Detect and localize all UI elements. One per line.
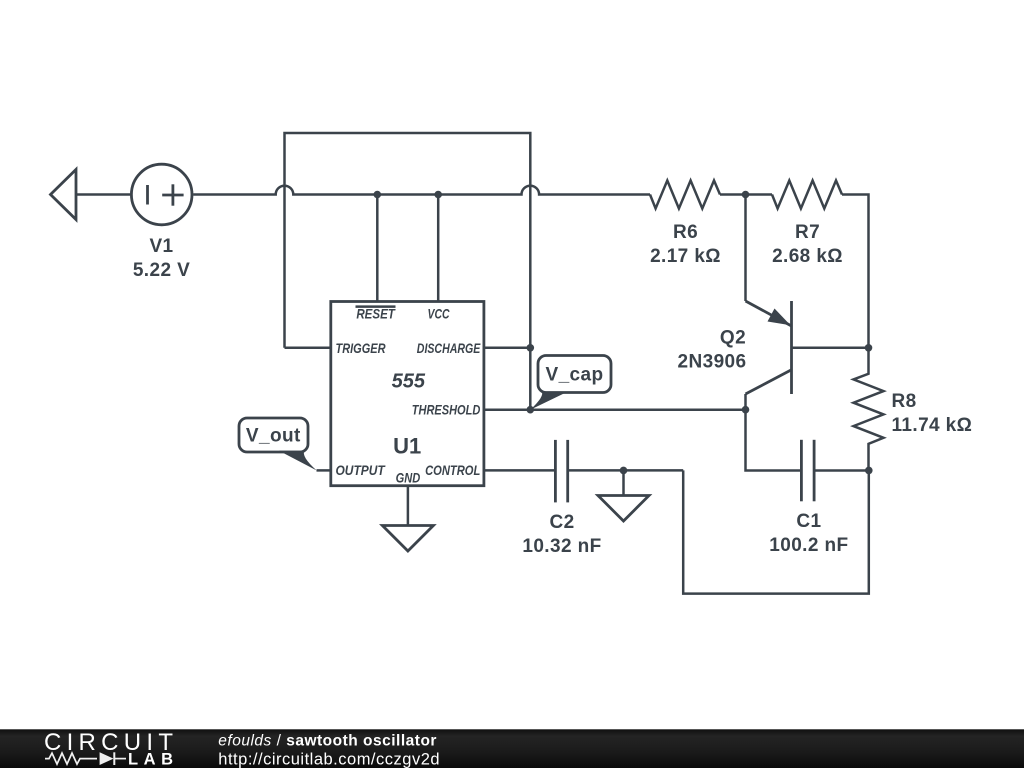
wire DISCHARGE stub — [484, 347, 530, 350]
node THRESHOLD/vertical — [527, 406, 535, 414]
flag V_cap — [538, 356, 611, 393]
node C2 ground — [620, 467, 628, 475]
wire bottom loop — [683, 470, 869, 593]
node THRESHOLD/collector — [742, 406, 750, 414]
svg-text:TRIGGER: TRIGGER — [336, 340, 387, 356]
svg-text:555: 555 — [392, 371, 426, 393]
wire OUTPUT stub — [317, 469, 331, 472]
svg-text:DISCHARGE: DISCHARGE — [417, 340, 481, 356]
resistor R8 — [854, 348, 884, 471]
svg-text:U1: U1 — [393, 434, 421, 459]
svg-text:11.74 kΩ: 11.74 kΩ — [892, 415, 973, 436]
logo resistor-diode glyph — [45, 753, 97, 764]
capacitor C1 — [800, 440, 803, 502]
node base/R8 — [865, 344, 873, 352]
voltage source V1 — [131, 164, 192, 225]
resistor R7 — [772, 181, 842, 209]
svg-text:10.32 nF: 10.32 nF — [522, 536, 601, 557]
wire CONTROL to C2 — [484, 469, 556, 472]
svg-text:efoulds / sawtooth oscillator: efoulds / sawtooth oscillator — [218, 733, 437, 750]
wire C1 to R8 bottom — [814, 469, 869, 472]
svg-text:2.17 kΩ: 2.17 kΩ — [650, 246, 721, 267]
wire RESET vertical — [376, 195, 379, 302]
wire VCC vertical — [437, 195, 440, 302]
transistor Q2 — [744, 195, 747, 302]
svg-text:R7: R7 — [795, 222, 820, 243]
svg-text:THRESHOLD: THRESHOLD — [412, 402, 481, 418]
svg-text:RESET: RESET — [356, 306, 396, 322]
svg-text:V1: V1 — [149, 236, 173, 257]
node C1/R8/loop — [865, 467, 873, 475]
node DISCHARGE — [527, 344, 535, 352]
svg-text:2N3906: 2N3906 — [678, 352, 747, 373]
svg-text:R6: R6 — [673, 222, 698, 243]
svg-text:OUTPUT: OUTPUT — [336, 462, 386, 478]
svg-text:VCC: VCC — [428, 306, 451, 322]
svg-text:V_out: V_out — [246, 426, 301, 447]
wire R7 to R8 top — [842, 195, 869, 348]
node RESET/rail — [374, 191, 382, 199]
ground C2 — [598, 496, 649, 522]
node R6/R7/emitter — [742, 191, 750, 199]
svg-text:100.2 nF: 100.2 nF — [769, 535, 848, 556]
flag V_out — [239, 418, 308, 452]
ground (left, rotated, at V1 negative) — [51, 170, 77, 220]
svg-text:LAB: LAB — [128, 751, 173, 768]
svg-text:Q2: Q2 — [720, 328, 746, 349]
wire THRESHOLD line — [484, 408, 746, 411]
svg-text:CONTROL: CONTROL — [425, 462, 480, 478]
wire ground to V1 — [76, 193, 130, 196]
node VCC/rail — [434, 191, 442, 199]
svg-text:2.68 kΩ: 2.68 kΩ — [772, 246, 843, 267]
ground U1 — [382, 526, 433, 552]
svg-text:http://circuitlab.com/cczgv2d: http://circuitlab.com/cczgv2d — [218, 751, 440, 768]
capacitor C2 — [554, 440, 557, 503]
wire GND stub — [407, 486, 410, 526]
top bypass wire TRIGGER-DISCHARGE — [285, 133, 531, 410]
op-amp U1 555 box — [331, 302, 484, 486]
svg-text:GND: GND — [396, 470, 421, 486]
wire collector down to C1 — [746, 410, 802, 471]
resistor R6 — [650, 181, 720, 209]
wire ground stub — [622, 470, 625, 495]
svg-text:R8: R8 — [892, 391, 917, 412]
wire C2 to corner — [568, 469, 684, 472]
wire V1 to R6 with hops — [193, 186, 650, 195]
wire R6 to R7 — [720, 193, 772, 196]
svg-text:C2: C2 — [549, 512, 574, 533]
svg-text:5.22 V: 5.22 V — [133, 260, 190, 281]
svg-text:C1: C1 — [796, 511, 821, 532]
wire TRIGGER stub — [285, 347, 331, 350]
svg-text:V_cap: V_cap — [546, 365, 604, 386]
